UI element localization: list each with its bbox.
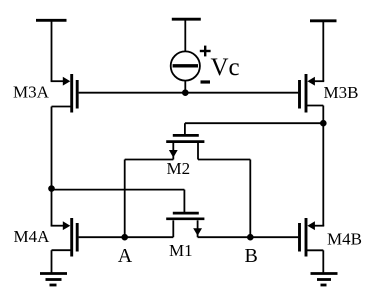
wire VDD-middle to Vc source [184, 19, 186, 51]
junction node A [121, 234, 128, 241]
junction node B [247, 234, 254, 241]
VDD rail right [310, 19, 337, 22]
wire node B (M1 drain to M4B gate) [198, 236, 299, 238]
wire M4A source to ground [51, 250, 53, 273]
wire M2 gate to right node [185, 123, 323, 135]
svg-text:M3A: M3A [13, 83, 50, 102]
wire VDD-right to M3B source [322, 21, 324, 81]
label A [118, 245, 133, 267]
wire M2 source to node A [125, 160, 174, 238]
label M3B [324, 83, 359, 102]
transistor M3B [300, 74, 325, 113]
transistor M4B [300, 218, 325, 257]
label M1 [169, 241, 193, 260]
svg-text:M4A: M4A [14, 227, 51, 246]
junction Vc gate net [182, 89, 189, 96]
transistor M4A [51, 218, 78, 257]
transistor M1 [166, 213, 204, 237]
plus sign [200, 46, 211, 57]
wire M3B drain down to M4B drain [322, 106, 324, 226]
wire Vc source to gate net [184, 81, 186, 93]
svg-text:Vc: Vc [211, 54, 240, 81]
VDD rail left [36, 19, 67, 22]
svg-text:A: A [118, 245, 133, 267]
label M2 [167, 159, 191, 178]
junction right drain node [320, 120, 327, 127]
wire left node to M1 gate [52, 190, 185, 213]
voltage source Vc [171, 51, 200, 80]
svg-text:M3B: M3B [324, 83, 359, 102]
VDD rail middle [172, 18, 201, 21]
junction left drain node [48, 185, 55, 192]
wire VDD-left to M3A source [51, 20, 53, 81]
svg-text:M2: M2 [167, 159, 191, 178]
transistor M2 [166, 135, 204, 159]
minus sign [201, 80, 211, 83]
label M4A [14, 227, 51, 246]
value label Vc [211, 54, 240, 81]
wire M3A gate to M3B gate (Vc net) [79, 92, 299, 94]
wire M2 drain to node B [198, 160, 250, 238]
ground left [40, 274, 67, 286]
transistor M3A [51, 74, 78, 113]
svg-text:M1: M1 [169, 241, 193, 260]
svg-text:M4B: M4B [327, 230, 362, 249]
label M3A [13, 83, 50, 102]
svg-text:B: B [245, 245, 258, 267]
wire M3A drain down to M4A drain [51, 107, 53, 226]
ground right [311, 274, 338, 286]
wire node A (M4A gate to M1 source) [79, 236, 174, 238]
label B [245, 245, 258, 267]
label M4B [327, 230, 362, 249]
wire M4B source to ground [322, 250, 324, 273]
